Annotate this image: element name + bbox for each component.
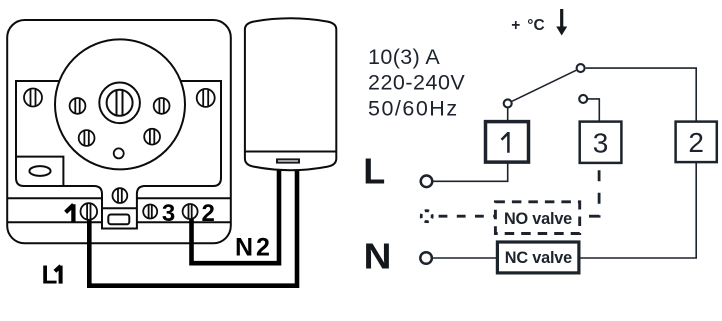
dial screw lower-right: [144, 129, 160, 145]
side screw right: [197, 89, 215, 107]
side screw left: [24, 89, 42, 107]
svg-text:10(3) A: 10(3) A: [368, 45, 440, 69]
switch blade: [512, 70, 576, 101]
dial circle: [55, 39, 185, 169]
terminal screw 1: [81, 203, 98, 220]
switch pivot node: [577, 64, 585, 72]
dashed node NO: [421, 211, 432, 222]
clamp pocket line: [102, 207, 137, 209]
terminal box 3: [580, 122, 622, 163]
cable clamp window: [108, 215, 129, 225]
dial hub: [99, 83, 140, 124]
wire L to box 1: [434, 163, 508, 182]
terminal screw 2: [183, 204, 198, 219]
dial screw upper-left: [70, 98, 86, 114]
svg-text:NO valve: NO valve: [504, 210, 572, 228]
thermostat base outline: [7, 20, 231, 243]
wire NC valve to box 2: [579, 162, 696, 258]
wire pivot to terminal 2: [586, 68, 697, 122]
wire N to NC valve: [433, 257, 496, 259]
svg-text:L: L: [363, 151, 385, 192]
NC valve box: [497, 242, 579, 273]
dial screw upper-right: [154, 98, 170, 114]
terminal box 2: [676, 122, 717, 163]
band line bottom: [7, 221, 231, 223]
terminal screw 3: [143, 205, 157, 219]
switch contact node 1: [504, 99, 512, 107]
svg-text:NC valve: NC valve: [505, 249, 572, 267]
svg-text:3: 3: [593, 128, 609, 159]
band line top: [7, 197, 231, 199]
mounting plate: [16, 81, 221, 229]
actuator slot: [277, 159, 299, 162]
switch contact node 3: [579, 95, 587, 103]
dashed wire NO valve to box 3: [580, 163, 599, 216]
wire L1: [89, 165, 297, 286]
dial screw lower-left: [79, 130, 95, 146]
svg-text:2: 2: [688, 127, 704, 158]
svg-text:3: 3: [162, 200, 175, 227]
svg-text:50/60Hz: 50/60Hz: [368, 96, 459, 120]
actuator cap line: [245, 151, 336, 153]
wire contact3 to box 3: [588, 99, 599, 122]
node N: [420, 252, 432, 264]
NO valve box: [495, 202, 579, 234]
center screw: [113, 188, 128, 203]
wire N2: [192, 165, 280, 263]
oval mounting slot: [29, 166, 50, 176]
svg-text:220-240V: 220-240V: [368, 71, 465, 95]
svg-text:+: +: [511, 17, 520, 34]
svg-text:L: L: [42, 260, 58, 290]
dial pilot hole: [114, 148, 124, 158]
svg-text:°C: °C: [527, 17, 544, 34]
valve actuator body: [245, 18, 336, 170]
terminal box 1: [486, 122, 529, 163]
label terminal 1: [66, 204, 74, 221]
wire contact1 to box 1: [507, 108, 509, 122]
svg-text:2: 2: [202, 200, 215, 227]
dashed wire node to NO valve: [434, 215, 495, 218]
svg-text:N2: N2: [235, 233, 273, 261]
svg-text:N: N: [364, 236, 392, 277]
temperature arrow: [556, 9, 567, 36]
terminal cover flap: [16, 157, 63, 186]
node L: [421, 176, 433, 188]
